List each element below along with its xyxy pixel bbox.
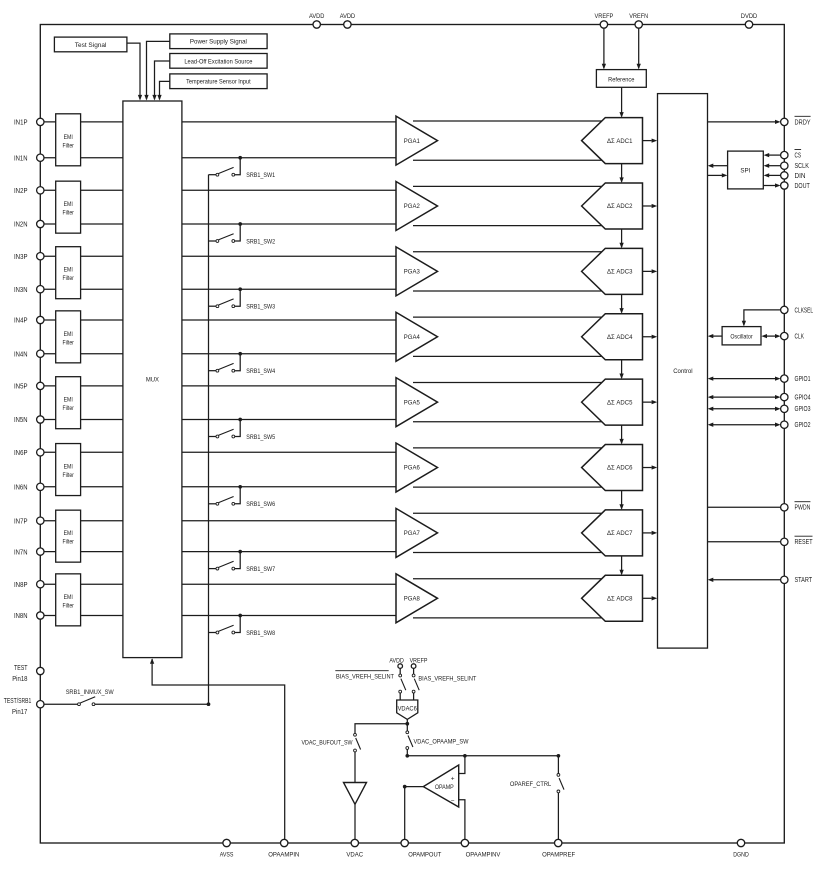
pin AVDD (top) xyxy=(309,13,324,28)
wire VDAC6 to VDAC_BUFOUT_SW xyxy=(355,724,407,734)
svg-text:Filter: Filter xyxy=(63,275,74,282)
wire DIN to SPI xyxy=(764,173,781,177)
ADC block ΔΣ ADC5 xyxy=(582,379,643,425)
pin PWDN xyxy=(781,502,811,512)
switch VDAC_BUFOUT_SW xyxy=(354,733,361,752)
node junction SRB1_SW7 xyxy=(238,550,242,554)
switch SRB1_SW5 xyxy=(209,429,235,438)
op-amp PGA4 xyxy=(396,312,438,361)
label BIAS_VREFH_SELINT (left, active low) xyxy=(335,671,394,681)
ADC block ΔΣ ADC1 xyxy=(582,118,643,164)
wire IN6N to MUX xyxy=(44,486,123,488)
svg-text:SRB1_SW5: SRB1_SW5 xyxy=(246,434,275,441)
svg-text:Test Signal: Test Signal xyxy=(75,42,107,49)
wire SRB1 bus xyxy=(208,175,210,705)
wire opamp output xyxy=(405,786,424,788)
svg-text:IN4P: IN4P xyxy=(14,318,28,325)
svg-text:SRB1_SW3: SRB1_SW3 xyxy=(246,304,275,311)
svg-text:EMI: EMI xyxy=(64,134,73,141)
pin IN7N xyxy=(14,548,44,556)
ADC block ΔΣ ADC8 xyxy=(582,575,643,621)
pin VDAC (bottom) xyxy=(346,839,363,858)
svg-text:OPAMP: OPAMP xyxy=(435,784,454,791)
label SRB1_SW4 xyxy=(246,368,275,375)
op-amp PGA1 xyxy=(396,116,438,165)
pin GPIO3 xyxy=(781,405,811,413)
wire buffer to VDAC pin xyxy=(354,804,356,839)
pin DRDY xyxy=(781,116,811,126)
wire SRB1_SW8 elbow xyxy=(235,616,241,633)
svg-text:SPI: SPI xyxy=(740,167,750,174)
pin GPIO1 xyxy=(781,375,811,383)
label VDAC_OPAAMP_SW xyxy=(414,738,469,745)
wire Control to SPI xyxy=(708,173,728,177)
wire ADC5 output to Control xyxy=(643,400,658,404)
svg-text:ΔΣ ADC8: ΔΣ ADC8 xyxy=(607,595,633,602)
wire opamp negative input to OPAAMPINV pin xyxy=(459,800,465,840)
wire OPAAMPIN to MUX xyxy=(150,658,285,839)
wire MUX to PGA6 negative xyxy=(182,486,396,488)
wire PGA2 output positive xyxy=(413,185,603,187)
node junction SRB1_SW4 xyxy=(238,352,242,356)
pin TEST (Pin18) xyxy=(12,665,44,683)
svg-text:Pin17: Pin17 xyxy=(12,709,27,716)
svg-text:EMI: EMI xyxy=(64,397,73,404)
wire Control to GPIO2 xyxy=(708,423,781,427)
wire reference chain to ADC7 xyxy=(619,491,623,510)
svg-text:BIAS_VREFH_SELINT: BIAS_VREFH_SELINT xyxy=(336,674,394,681)
svg-text:MUX: MUX xyxy=(146,377,159,384)
wire PGA7 output negative xyxy=(413,552,603,554)
pin IN8P xyxy=(14,581,44,589)
wire IN7N to MUX xyxy=(44,551,123,553)
node junction SRB1_SW8 xyxy=(238,614,242,618)
svg-text:OPAREF_CTRL: OPAREF_CTRL xyxy=(510,781,552,788)
svg-text:Oscillator: Oscillator xyxy=(730,333,753,340)
node junction SRB1_SW3 xyxy=(238,287,242,291)
wire VREFN to Reference xyxy=(637,28,641,69)
label SRB1_SW8 xyxy=(246,630,275,637)
EMI filter channel 7 xyxy=(56,510,81,562)
wire SRB1_SW1 elbow xyxy=(235,158,241,175)
wire PGA5 output negative xyxy=(413,421,603,423)
block Reference xyxy=(596,70,646,88)
svg-text:IN6N: IN6N xyxy=(14,485,28,492)
wire ADC8 output to Control xyxy=(643,596,658,600)
svg-text:ΔΣ ADC1: ΔΣ ADC1 xyxy=(607,138,633,145)
svg-text:Filter: Filter xyxy=(63,405,74,412)
svg-text:CLKSEL: CLKSEL xyxy=(795,307,814,314)
svg-text:GPIO4: GPIO4 xyxy=(795,395,811,402)
svg-text:DVDD: DVDD xyxy=(741,13,758,20)
svg-text:Filter: Filter xyxy=(63,210,74,217)
svg-text:SRB1_SW8: SRB1_SW8 xyxy=(246,630,275,637)
wire Control to DRDY xyxy=(708,120,781,124)
pin IN3N xyxy=(14,286,44,294)
wire MUX to PGA5 negative xyxy=(182,419,396,421)
wire START to Control xyxy=(708,578,781,582)
wire IN3N to MUX xyxy=(44,288,123,290)
svg-text:AVDD: AVDD xyxy=(340,13,355,20)
pin VREFP (internal source) xyxy=(410,657,428,668)
svg-text:AVDD: AVDD xyxy=(389,657,404,664)
svg-text:PGA1: PGA1 xyxy=(404,138,420,145)
svg-text:Pin18: Pin18 xyxy=(12,676,27,683)
svg-text:IN7N: IN7N xyxy=(14,549,28,556)
pin OPAMPREF (bottom) xyxy=(542,839,575,858)
label SRB1_SW6 xyxy=(246,501,275,508)
wire MUX to PGA6 positive xyxy=(182,451,396,453)
pin OPAAMPINV (bottom) xyxy=(461,839,501,858)
wire IN1P to MUX xyxy=(44,121,123,123)
EMI filter channel 1 xyxy=(56,114,81,166)
svg-text:TEST/SRB1: TEST/SRB1 xyxy=(4,698,32,705)
wire PGA3 output negative xyxy=(413,290,603,292)
wire PGA6 output positive xyxy=(413,447,603,449)
wire ADC1 output to Control xyxy=(643,138,658,142)
wire Lead-Off Excitation Source to MUX xyxy=(152,61,169,101)
svg-text:IN3N: IN3N xyxy=(14,287,28,294)
wire ADC6 output to Control xyxy=(643,465,658,469)
EMI filter channel 6 xyxy=(56,444,81,496)
DAC VDAC6 xyxy=(397,700,418,719)
switch BIAS_VREFH_SELINT (AVDD side) xyxy=(399,668,406,700)
ADC block ΔΣ ADC4 xyxy=(582,314,643,360)
svg-text:Filter: Filter xyxy=(63,472,74,479)
block Lead-Off Excitation Source xyxy=(170,54,267,69)
block Power Supply Signal xyxy=(170,34,267,49)
svg-text:IN8P: IN8P xyxy=(14,582,28,589)
pin IN2P xyxy=(14,187,44,195)
wire MUX to PGA8 positive xyxy=(182,583,396,585)
pin SCLK xyxy=(781,162,810,170)
switch VDAC_OPAAMP_SW xyxy=(406,731,413,750)
pin DIN xyxy=(781,172,806,180)
switch SRB1_SW4 xyxy=(209,363,235,372)
wire PGA7 output positive xyxy=(413,512,603,514)
wire SRB1_SW4 elbow xyxy=(235,354,241,371)
svg-text:IN2N: IN2N xyxy=(14,222,28,229)
ADC block ΔΣ ADC2 xyxy=(582,183,643,229)
pin CLK xyxy=(781,332,805,340)
wire Control to RESET xyxy=(708,541,781,543)
svg-text:IN3P: IN3P xyxy=(14,254,28,261)
switch BIAS_VREFH_SELINT (VREFP side) xyxy=(412,668,419,700)
svg-text:BIAS_VREFH_SELINT: BIAS_VREFH_SELINT xyxy=(418,676,476,683)
svg-text:RESET: RESET xyxy=(795,539,814,546)
svg-text:DIN: DIN xyxy=(795,173,806,180)
svg-text:PGA5: PGA5 xyxy=(404,399,420,406)
svg-text:Filter: Filter xyxy=(63,539,74,546)
op-amp PGA2 xyxy=(396,181,438,230)
wire MUX to PGA5 positive xyxy=(182,385,396,387)
op-amp PGA5 xyxy=(396,378,438,427)
svg-text:VDAC_OPAAMP_SW: VDAC_OPAAMP_SW xyxy=(414,738,469,745)
wire Test Signal to MUX xyxy=(127,43,142,100)
svg-text:OPAAMPIN: OPAAMPIN xyxy=(268,851,299,858)
node junction VDAC6 output xyxy=(405,722,409,726)
pin GPIO2 xyxy=(781,421,811,429)
svg-text:IN2P: IN2P xyxy=(14,188,28,195)
svg-text:PGA3: PGA3 xyxy=(404,269,420,276)
wire MUX to PGA8 negative xyxy=(182,615,396,617)
wire Oscillator to Control xyxy=(708,334,722,338)
svg-text:GPIO2: GPIO2 xyxy=(795,422,811,429)
block MUX xyxy=(123,101,182,658)
wire reference chain to ADC5 xyxy=(619,360,623,379)
block Temperature Sensor Input xyxy=(170,74,267,89)
pin VREFP (top) xyxy=(595,13,614,28)
pin IN7P xyxy=(14,517,44,525)
wire ADC2 output to Control xyxy=(643,204,658,208)
svg-text:IN5P: IN5P xyxy=(14,384,28,391)
label SRB1_SW7 xyxy=(246,566,275,573)
wire IN2N to MUX xyxy=(44,223,123,225)
pin IN6P xyxy=(14,449,44,457)
svg-text:SRB1_INMUX_SW: SRB1_INMUX_SW xyxy=(66,689,114,696)
wire MUX to PGA1 negative xyxy=(182,157,396,159)
switch SRB1_INMUX_SW xyxy=(66,689,114,705)
op-amp PGA3 xyxy=(396,247,438,296)
svg-text:SRB1_SW7: SRB1_SW7 xyxy=(246,566,275,573)
switch OPAREF_CTRL xyxy=(557,774,564,793)
svg-text:EMI: EMI xyxy=(64,464,73,471)
wire VDAC6 to VDAC_OPAAMP_SW xyxy=(406,724,408,731)
EMI filter channel 8 xyxy=(56,574,81,626)
svg-text:IN8N: IN8N xyxy=(14,613,28,620)
svg-text:OPAAMPINV: OPAAMPINV xyxy=(466,851,502,858)
svg-text:GPIO3: GPIO3 xyxy=(795,406,811,413)
svg-text:+: + xyxy=(451,776,455,783)
pin OPAMPOUT (bottom) xyxy=(401,839,442,858)
wire IN5P to MUX xyxy=(44,385,123,387)
wire opamp positive rail xyxy=(407,755,558,757)
svg-text:AVDD: AVDD xyxy=(309,13,324,20)
op-amp PGA7 xyxy=(396,508,438,557)
svg-text:Reference: Reference xyxy=(608,76,634,83)
wire IN4P to MUX xyxy=(44,319,123,321)
pin AVSS (bottom) xyxy=(220,839,234,858)
pin IN4N xyxy=(14,350,44,358)
wire CLKSEL to Oscillator xyxy=(742,310,781,327)
wire ADC4 output to Control xyxy=(643,335,658,339)
svg-text:ΔΣ ADC5: ΔΣ ADC5 xyxy=(607,399,633,406)
switch SRB1_SW8 xyxy=(209,625,235,634)
wire SRB1_SW5 elbow xyxy=(235,420,241,437)
wire Temperature Sensor Input to MUX xyxy=(157,81,169,100)
label VDAC_BUFOUT_SW xyxy=(302,740,353,747)
node junction SRB1 bus xyxy=(207,702,211,706)
svg-text:VREFP: VREFP xyxy=(595,13,614,20)
pin DOUT xyxy=(781,182,811,190)
pin AVDD (internal source) xyxy=(389,657,404,668)
wire PGA5 output positive xyxy=(413,382,603,384)
svg-text:EMI: EMI xyxy=(64,267,73,274)
pin DVDD (top) xyxy=(741,13,758,28)
svg-text:DGND: DGND xyxy=(733,851,749,858)
pin START xyxy=(781,576,813,584)
wire IN8N to MUX xyxy=(44,615,123,617)
svg-text:Filter: Filter xyxy=(63,142,74,149)
node junction OPAREF_CTRL xyxy=(557,754,561,758)
wire ADC3 output to Control xyxy=(643,269,658,273)
switch SRB1_SW7 xyxy=(209,561,235,570)
label SRB1_SW3 xyxy=(246,304,275,311)
wire IN8P to MUX xyxy=(44,583,123,585)
wire PGA4 output negative xyxy=(413,355,603,357)
svg-text:SRB1_SW2: SRB1_SW2 xyxy=(246,238,275,245)
svg-text:Filter: Filter xyxy=(63,602,74,609)
pin VREFN (top) xyxy=(629,13,648,28)
wire PGA8 output negative xyxy=(413,617,603,619)
wire node to opamp positive input xyxy=(459,756,465,774)
svg-text:Lead-Off Excitation Source: Lead-Off Excitation Source xyxy=(184,58,252,65)
wire OPAREF_CTRL to OPAMPREF pin xyxy=(557,793,559,840)
svg-text:ΔΣ ADC3: ΔΣ ADC3 xyxy=(607,269,633,276)
svg-text:PWDN: PWDN xyxy=(795,505,811,512)
pin IN1N xyxy=(14,154,44,162)
pin IN3P xyxy=(14,253,44,261)
switch SRB1_SW3 xyxy=(209,299,235,308)
svg-text:ΔΣ ADC7: ΔΣ ADC7 xyxy=(607,530,633,537)
svg-text:Power Supply Signal: Power Supply Signal xyxy=(190,39,247,46)
svg-text:GPIO1: GPIO1 xyxy=(795,376,811,383)
op-amp OPAMP xyxy=(423,765,458,807)
pin GPIO4 xyxy=(781,393,811,401)
pin IN8N xyxy=(14,612,44,620)
op-amp PGA8 xyxy=(396,574,438,623)
svg-text:VDAC6: VDAC6 xyxy=(398,705,418,712)
wire Reference to ADC1 xyxy=(619,87,623,117)
pin CS xyxy=(781,150,802,160)
wire PGA3 output positive xyxy=(413,251,603,253)
wire MUX to PGA3 positive xyxy=(182,255,396,257)
wire CS to SPI xyxy=(764,153,781,157)
wire PGA2 output negative xyxy=(413,225,603,227)
svg-text:DRDY: DRDY xyxy=(795,119,811,126)
wire SRB1_SW7 elbow xyxy=(235,552,241,569)
svg-text:−: − xyxy=(451,798,455,805)
wire SPI to DOUT xyxy=(763,183,780,187)
pin IN2N xyxy=(14,220,44,228)
svg-text:IN1P: IN1P xyxy=(14,120,28,127)
wire ADC7 output to Control xyxy=(643,531,658,535)
wire IN2P to MUX xyxy=(44,189,123,191)
wire MUX to PGA2 negative xyxy=(182,223,396,225)
pin IN6N xyxy=(14,483,44,491)
wire Control to GPIO1 xyxy=(708,376,781,380)
label BIAS_VREFH_SELINT (right) xyxy=(418,676,476,683)
svg-text:EMI: EMI xyxy=(64,331,73,338)
svg-text:IN1N: IN1N xyxy=(14,155,28,162)
svg-text:VREFN: VREFN xyxy=(629,13,648,20)
pin DGND (bottom) xyxy=(733,839,749,858)
wire IN5N to MUX xyxy=(44,419,123,421)
wire Control to PWDN xyxy=(708,506,781,508)
pin RESET xyxy=(781,536,813,546)
svg-text:IN6P: IN6P xyxy=(14,450,28,457)
svg-text:Control: Control xyxy=(673,368,693,375)
wire PGA1 output positive xyxy=(413,120,603,122)
wire reference chain to ADC6 xyxy=(619,425,623,444)
svg-text:EMI: EMI xyxy=(64,594,73,601)
ADC block ΔΣ ADC6 xyxy=(582,445,643,491)
label SRB1_SW2 xyxy=(246,238,275,245)
wire VDAC6 output xyxy=(406,719,408,723)
wire reference chain to ADC2 xyxy=(619,164,623,183)
switch SRB1_SW2 xyxy=(209,234,235,243)
svg-text:AVSS: AVSS xyxy=(220,851,234,858)
svg-text:SRB1_SW6: SRB1_SW6 xyxy=(246,501,275,508)
wire PGA8 output positive xyxy=(413,578,603,580)
wire node to OPAREF_CTRL switch xyxy=(557,756,559,774)
pin CLKSEL xyxy=(781,306,814,314)
svg-text:START: START xyxy=(795,577,813,584)
svg-text:VREFP: VREFP xyxy=(410,657,428,664)
label OPAREF_CTRL xyxy=(510,781,552,788)
svg-text:PGA6: PGA6 xyxy=(404,465,420,472)
wire VDAC_BUFOUT_SW to buffer xyxy=(354,752,356,783)
svg-text:IN7P: IN7P xyxy=(14,518,28,525)
svg-text:CLK: CLK xyxy=(795,334,805,341)
svg-text:VDAC: VDAC xyxy=(346,851,363,858)
wire IN6P to MUX xyxy=(44,451,123,453)
EMI filter channel 2 xyxy=(56,181,81,233)
op-amp PGA6 xyxy=(396,443,438,492)
wire IN4N to MUX xyxy=(44,353,123,355)
block Oscillator xyxy=(722,327,761,345)
wire SRB1_SW2 elbow xyxy=(235,224,241,241)
wire reference chain to ADC4 xyxy=(619,294,623,313)
EMI filter channel 4 xyxy=(56,311,81,363)
node junction SRB1_SW6 xyxy=(238,485,242,489)
svg-text:TEST: TEST xyxy=(14,665,28,672)
node junction opamp positive input xyxy=(463,754,467,758)
wire MUX to PGA4 positive xyxy=(182,319,396,321)
svg-text:PGA8: PGA8 xyxy=(404,595,420,602)
wire reference chain to ADC8 xyxy=(619,556,623,575)
node junction opamp output xyxy=(403,785,407,789)
op-amp buffer (VDAC) xyxy=(344,783,367,805)
svg-text:PGA7: PGA7 xyxy=(404,530,420,537)
svg-text:OPAMPOUT: OPAMPOUT xyxy=(408,851,441,858)
wire MUX to PGA7 negative xyxy=(182,551,396,553)
wire SPI to Control xyxy=(708,164,728,168)
wire PGA1 output negative xyxy=(413,159,603,161)
wire Control to GPIO3 xyxy=(708,407,781,411)
svg-text:ΔΣ ADC4: ΔΣ ADC4 xyxy=(607,334,633,341)
svg-text:ΔΣ ADC2: ΔΣ ADC2 xyxy=(607,203,633,210)
svg-text:PGA4: PGA4 xyxy=(404,334,420,341)
pin OPAAMPIN (bottom) xyxy=(268,839,299,858)
node junction opamp positive rail xyxy=(405,754,409,758)
svg-text:IN5N: IN5N xyxy=(14,417,28,424)
block SPI xyxy=(728,151,764,189)
wire IN3P to MUX xyxy=(44,255,123,257)
wire reference chain to ADC3 xyxy=(619,229,623,248)
svg-text:Filter: Filter xyxy=(63,339,74,346)
wire MUX to PGA2 positive xyxy=(182,189,396,191)
svg-text:EMI: EMI xyxy=(64,201,73,208)
svg-text:SCLK: SCLK xyxy=(795,163,810,170)
wire VDAC_OPAAMP_SW to node xyxy=(406,749,408,755)
wire Control to GPIO4 xyxy=(708,395,781,399)
pin IN1P xyxy=(14,118,44,126)
pin TEST/SRB1 (Pin17) xyxy=(4,698,44,716)
wire IN1N to MUX xyxy=(44,157,123,159)
wire MUX to PGA7 positive xyxy=(182,520,396,522)
wire CLK to Oscillator xyxy=(761,334,780,338)
